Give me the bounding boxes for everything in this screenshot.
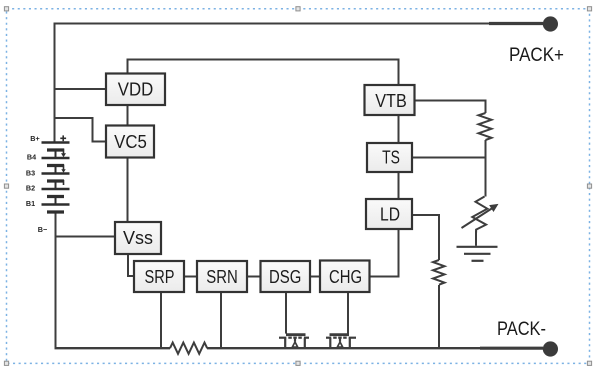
- svg-text:CHG: CHG: [329, 267, 362, 287]
- wire TS node down to thermistor: [485, 158, 487, 197]
- wire bottom rail right segment: [207, 347, 543, 349]
- pin box SRP: [134, 261, 184, 292]
- battery small arrow marks: [61, 149, 66, 186]
- wire Vss to SRP: [128, 254, 134, 276]
- pin box VC5: [106, 126, 154, 158]
- svg-text:PACK-: PACK-: [497, 319, 546, 340]
- terminal PACK-: [480, 341, 558, 356]
- svg-text:VTB: VTB: [375, 91, 407, 111]
- wire bottom rail left segment: [55, 347, 171, 349]
- wire B+ to VC5 step: [55, 118, 107, 142]
- battery cell B1 plates: [42, 197, 70, 213]
- wire CHG gate stub: [347, 292, 349, 334]
- resistor R1: [479, 113, 492, 140]
- svg-text:DSG: DSG: [269, 267, 301, 287]
- thermistor arrow: [462, 205, 498, 229]
- svg-text:SRN: SRN: [206, 267, 238, 287]
- ground: [457, 247, 498, 261]
- svg-text:B−: B−: [38, 225, 47, 234]
- wire SRN to DSG: [247, 276, 261, 278]
- terminal PACK+: [489, 16, 558, 31]
- wire R1 to TS right: [412, 140, 486, 158]
- wire VDD to VC5: [127, 105, 129, 126]
- wire VTB right to R1: [415, 101, 486, 114]
- svg-text:B1: B1: [26, 199, 35, 208]
- wire VC5 to Vss: [127, 158, 129, 223]
- svg-text:B2: B2: [26, 183, 35, 192]
- svg-text:B+: B+: [30, 134, 39, 143]
- wire TS to LD: [398, 172, 400, 199]
- svg-text:SRP: SRP: [145, 267, 175, 287]
- wire CHG to LD bottom: [370, 229, 399, 277]
- wire thermistor to ground: [475, 231, 477, 246]
- wire DSG to CHG: [310, 276, 320, 278]
- resistor R2 sense: [170, 343, 207, 354]
- battery cell B4 plates: [42, 150, 70, 166]
- wire top rail B+ to PACK+: [55, 23, 544, 25]
- svg-text:B4: B4: [27, 153, 36, 162]
- svg-text:Vss: Vss: [123, 228, 153, 248]
- pin box SRN: [197, 261, 247, 292]
- wire DSG gate stub: [285, 292, 287, 334]
- wire left vertical B+ drop: [54, 23, 56, 143]
- pin box VTB: [365, 85, 415, 115]
- transistor Q1 (DSG FET): [279, 335, 309, 348]
- pin box VDD: [106, 74, 165, 106]
- svg-text:VC5: VC5: [114, 132, 147, 152]
- wire SRP to SRN: [184, 276, 197, 278]
- wire battery bottom drop: [55, 212, 57, 348]
- pin box Vss: [115, 222, 161, 254]
- svg-text:VDD: VDD: [118, 79, 154, 99]
- battery plus mark: [60, 135, 66, 141]
- resistor R3: [433, 260, 445, 285]
- pin box LD: [366, 199, 412, 229]
- pin box TS: [367, 143, 412, 172]
- thermistor RT zigzag: [472, 197, 487, 233]
- svg-text:PACK+: PACK+: [509, 45, 564, 66]
- svg-text:LD: LD: [380, 205, 400, 225]
- transistor Q2 (CHG FET): [326, 335, 356, 348]
- svg-text:B3: B3: [26, 168, 35, 177]
- wire R3 to bottom rail: [438, 285, 440, 348]
- battery cell B5 top plates: [42, 143, 70, 151]
- wire B- to Vss: [56, 236, 116, 238]
- wire LD right to R3: [412, 215, 439, 260]
- wire VDD left tap: [55, 88, 107, 90]
- wire SRP to rail: [160, 292, 162, 348]
- wire VTB to TS: [398, 115, 400, 143]
- battery cell B2 plates: [42, 181, 70, 197]
- svg-text:TS: TS: [382, 148, 400, 168]
- pin box DSG: [261, 261, 311, 292]
- wire SRN to rail: [220, 292, 222, 348]
- battery cell B3 plates: [42, 166, 70, 182]
- pin box CHG: [320, 261, 370, 293]
- wire VDD top to VTB top: [128, 60, 399, 86]
